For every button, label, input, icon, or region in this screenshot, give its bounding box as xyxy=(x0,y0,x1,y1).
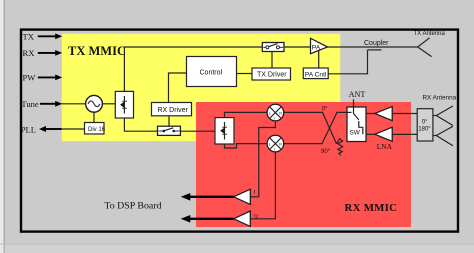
arrow TX input xyxy=(38,33,62,39)
wire PA to TX antenna xyxy=(328,46,418,48)
svg-text:R: R xyxy=(279,111,282,115)
hybrid 0/180 box xyxy=(417,109,433,141)
svg-text:I: I xyxy=(274,117,275,121)
svg-text:TX Driver: TX Driver xyxy=(257,72,287,79)
svg-text:RX: RX xyxy=(23,48,36,58)
wire mixer M2 IF out to Q amp xyxy=(250,152,275,219)
svg-text:PA: PA xyxy=(312,44,321,51)
svg-text:0°: 0° xyxy=(422,120,428,126)
RX buffer amp U2 xyxy=(215,118,234,144)
svg-text:ANT: ANT xyxy=(349,90,366,99)
svg-text:90°: 90° xyxy=(321,149,331,155)
wire switch S2 to PA xyxy=(284,46,311,48)
wire coupler tap to PA Cntl xyxy=(328,50,367,74)
wire PA to PA Cntl xyxy=(318,51,320,69)
svg-text:0°: 0° xyxy=(322,107,328,113)
wire SW to LNA1 xyxy=(366,113,375,115)
wire buffer U1 to LO switch S1 xyxy=(124,118,157,131)
svg-text:180°: 180° xyxy=(418,127,431,133)
switch S2 xyxy=(262,43,284,52)
RX Driver xyxy=(152,103,192,116)
wire LNA1 to hybrid xyxy=(392,113,417,115)
RX antenna 2 xyxy=(436,126,453,145)
wire VCO to buffer U1 xyxy=(102,103,115,105)
resistor load R1 xyxy=(337,139,343,156)
wire hybrid to RX antenna 1 xyxy=(433,115,436,117)
svg-text:RX MMIC: RX MMIC xyxy=(345,202,398,214)
oscillator VCO xyxy=(86,95,103,112)
svg-text:TX MMIC: TX MMIC xyxy=(68,44,126,58)
wire Control to TX Driver xyxy=(237,73,253,75)
wire mixer M1 IF out to I amp xyxy=(250,121,275,197)
arrow Q output xyxy=(181,215,234,223)
LNA amp 2 xyxy=(375,127,392,141)
wire buffer U1 to TX rail and switch S2 xyxy=(124,47,262,91)
wire switch S1 to RX buffer U2 xyxy=(180,130,215,132)
arrow I output xyxy=(181,193,234,201)
arrow PW input xyxy=(38,75,62,81)
svg-text:Q: Q xyxy=(254,213,258,219)
buffer amp U1 xyxy=(115,91,133,118)
mixer M2 xyxy=(267,135,284,152)
LNA amp 1 xyxy=(375,107,392,121)
Q amp A2 xyxy=(234,211,251,226)
svg-text:Div 16: Div 16 xyxy=(88,127,106,133)
svg-text:Coupler: Coupler xyxy=(364,40,389,47)
wire RX buffer U2 to mixer M1 xyxy=(225,112,268,117)
svg-text:I: I xyxy=(274,148,275,152)
ANT stub xyxy=(353,99,355,107)
arrow RX input xyxy=(38,50,62,56)
RX MMIC red region xyxy=(196,102,411,227)
TX antenna xyxy=(418,38,432,57)
arrow Tune input xyxy=(40,101,62,107)
mixer M1 xyxy=(267,104,284,121)
switch S1 xyxy=(158,126,181,135)
wire LNA2 to hybrid xyxy=(392,133,417,135)
wire Control to RX Driver xyxy=(169,73,187,103)
arrow PLL output xyxy=(39,126,62,132)
Control xyxy=(187,57,237,87)
PA Cntl xyxy=(303,68,328,79)
switch SW box xyxy=(347,107,366,142)
svg-text:L: L xyxy=(269,111,271,115)
svg-text:TX: TX xyxy=(23,31,35,41)
wire Div16 to PLL xyxy=(62,128,85,130)
wire TX Driver to switch S2 xyxy=(271,52,273,69)
svg-text:To DSP Board: To DSP Board xyxy=(104,201,161,212)
svg-text:TX Antenna: TX Antenna xyxy=(414,31,446,37)
wire RX Driver to switch S1 xyxy=(168,116,170,126)
wire mixer M1 to 90deg cross (to load) xyxy=(284,112,337,143)
divider Div 16 xyxy=(85,123,106,135)
svg-text:Control: Control xyxy=(200,70,223,77)
wire Tune to VCO xyxy=(62,103,86,105)
svg-text:PA Cntl: PA Cntl xyxy=(305,71,327,78)
TX MMIC yellow region xyxy=(62,34,341,141)
svg-text:PLL: PLL xyxy=(21,125,36,135)
TX Driver xyxy=(252,68,291,80)
wire hybrid to RX antenna 2 xyxy=(433,135,436,137)
svg-text:LNA: LNA xyxy=(377,142,393,151)
page bottom edge line xyxy=(0,243,474,245)
svg-text:RX Driver: RX Driver xyxy=(158,107,189,114)
svg-text:L: L xyxy=(269,142,271,146)
wire VCO to divider xyxy=(93,112,95,122)
svg-text:RX Antenna: RX Antenna xyxy=(423,95,457,102)
svg-text:I: I xyxy=(254,190,256,196)
PA amp xyxy=(311,38,328,53)
RX antenna 1 xyxy=(436,106,453,126)
wire SW to LNA2 xyxy=(366,133,375,135)
svg-text:PW: PW xyxy=(23,73,37,83)
coupler coupled line xyxy=(368,49,382,51)
page left edge strip xyxy=(0,0,4,253)
svg-text:Tune: Tune xyxy=(21,99,39,109)
outer frame xyxy=(21,30,458,232)
wire mixer M2 to 0deg cross (to SW) xyxy=(284,112,347,143)
svg-text:R: R xyxy=(279,142,282,146)
svg-text:SW: SW xyxy=(350,129,361,136)
wire RX buffer U2 to mixer M2 xyxy=(225,144,268,148)
I amp A1 xyxy=(234,189,251,204)
